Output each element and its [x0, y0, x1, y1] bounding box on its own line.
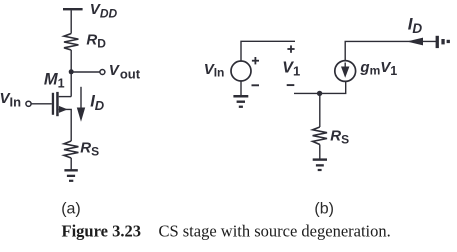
ground below RS (b) — [313, 158, 327, 171]
voltage source Vin circle (b) — [231, 61, 251, 81]
svg-text:RD: RD — [86, 31, 106, 50]
wire source top (b) — [241, 41, 295, 61]
svg-text:RS: RS — [80, 140, 99, 159]
node RS junction dot (b) — [317, 91, 322, 96]
sideways ground termination — [436, 36, 450, 48]
source arrow of M1 — [59, 106, 68, 113]
svg-text:M1: M1 — [44, 71, 65, 91]
resistor RS (b) — [313, 127, 327, 145]
wire bottom node (b) — [294, 82, 346, 94]
current source gmV1 circle — [335, 61, 356, 82]
ID arrowhead (b) — [407, 38, 423, 46]
wire source lead of M1 down to RS — [59, 109, 71, 141]
wire VDD bar to resistor RD — [70, 10, 72, 33]
Vout terminal circle — [100, 70, 105, 75]
svg-text:(a): (a) — [61, 200, 81, 217]
svg-text:V1: V1 — [282, 60, 300, 79]
minus sign at source (b) — [252, 84, 260, 86]
node drain junction dot — [69, 69, 74, 74]
svg-text:RS: RS — [330, 127, 349, 146]
wire RS to ground (b) — [319, 145, 321, 159]
wire current source top to termination — [345, 41, 436, 60]
ground at source (b) — [233, 95, 248, 108]
plus sign of V1 — [287, 45, 294, 52]
resistor RS (a) — [64, 141, 78, 158]
VDD supply bar — [63, 8, 83, 10]
svg-text:(b): (b) — [314, 200, 334, 217]
minus sign of V1 — [287, 84, 295, 86]
wire drain lead of M1 — [59, 96, 71, 98]
wire gate — [31, 103, 52, 105]
wire node to Vout terminal — [71, 71, 100, 73]
transistor M1 gate bar — [52, 93, 54, 115]
svg-text:VIn: VIn — [0, 90, 21, 110]
svg-text:Figure 3.23CS stage with sourc: Figure 3.23CS stage with source degenera… — [62, 222, 391, 241]
wire RS to ground (a) — [70, 158, 72, 170]
resistor RD — [64, 34, 78, 51]
transistor M1 channel bar — [56, 92, 59, 116]
wire source to ground (b) — [240, 81, 242, 95]
svg-text:gmV1: gmV1 — [359, 59, 397, 78]
svg-text:VDD: VDD — [90, 1, 118, 21]
svg-text:ID: ID — [408, 14, 423, 36]
ID current arrow (a) — [80, 87, 82, 109]
current source arrow — [344, 63, 346, 70]
Vin terminal circle — [26, 101, 31, 106]
svg-text:ID: ID — [90, 93, 105, 114]
plus sign at source (b) — [252, 57, 259, 64]
svg-text:VIn: VIn — [204, 61, 225, 80]
svg-text:Vout: Vout — [109, 62, 141, 81]
wire RD to drain node, down to drain lead — [70, 50, 72, 97]
wire node to RS (b) — [319, 93, 321, 127]
ground (a) — [64, 169, 77, 182]
